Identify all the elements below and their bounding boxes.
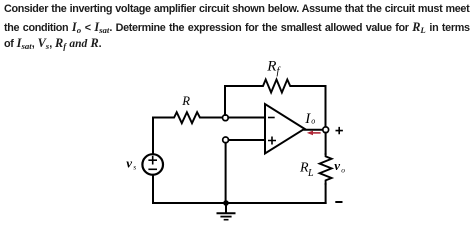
resistor R	[172, 112, 203, 123]
svg-text:s: s	[133, 163, 136, 172]
wire source bottom to bottom rail	[152, 175, 154, 203]
svg-text:R: R	[181, 94, 190, 108]
label minus at output bottom	[336, 201, 341, 203]
wire inverting node to op-amp minus input	[228, 117, 265, 119]
svg-text:f: f	[277, 66, 282, 77]
wire top-left horizontal to resistor R	[153, 117, 172, 119]
resistor Rf	[260, 80, 293, 93]
wire bottom rail	[153, 202, 326, 204]
wire feedback right vertical down to output node	[325, 86, 327, 127]
svg-text:R: R	[266, 59, 276, 75]
wire bottom rail right segment up to RL	[325, 184, 327, 203]
svg-text:v: v	[126, 155, 132, 170]
svg-text:o: o	[311, 117, 315, 126]
resistor RL vertical	[320, 154, 332, 184]
wire output node down to RL	[325, 133, 327, 154]
node output (open terminal)	[323, 127, 329, 133]
node inverting input (open terminal)	[223, 115, 229, 121]
svg-text:v: v	[334, 158, 340, 173]
svg-text:o: o	[341, 165, 345, 174]
wire plus node to op-amp plus input	[229, 139, 266, 141]
wire feedback left vertical	[224, 86, 226, 115]
current arrow Io (red, pointing left)	[307, 131, 320, 136]
voltage source Vs	[142, 154, 163, 175]
wire plus node down to ground rail	[225, 143, 227, 203]
wire feedback top right horizontal	[293, 85, 325, 87]
wire op-amp output to node	[305, 129, 323, 131]
label plus at output	[336, 128, 342, 134]
junction dot at ground node	[223, 200, 229, 206]
wire feedback top left horizontal	[225, 85, 260, 87]
svg-text:L: L	[307, 168, 314, 179]
wire left vertical from top corner to source top	[152, 118, 154, 155]
ground symbol	[218, 203, 235, 220]
op-amp U1	[265, 104, 305, 154]
wire resistor R to inverting node	[203, 117, 223, 119]
node plus input (open terminal)	[223, 137, 229, 143]
